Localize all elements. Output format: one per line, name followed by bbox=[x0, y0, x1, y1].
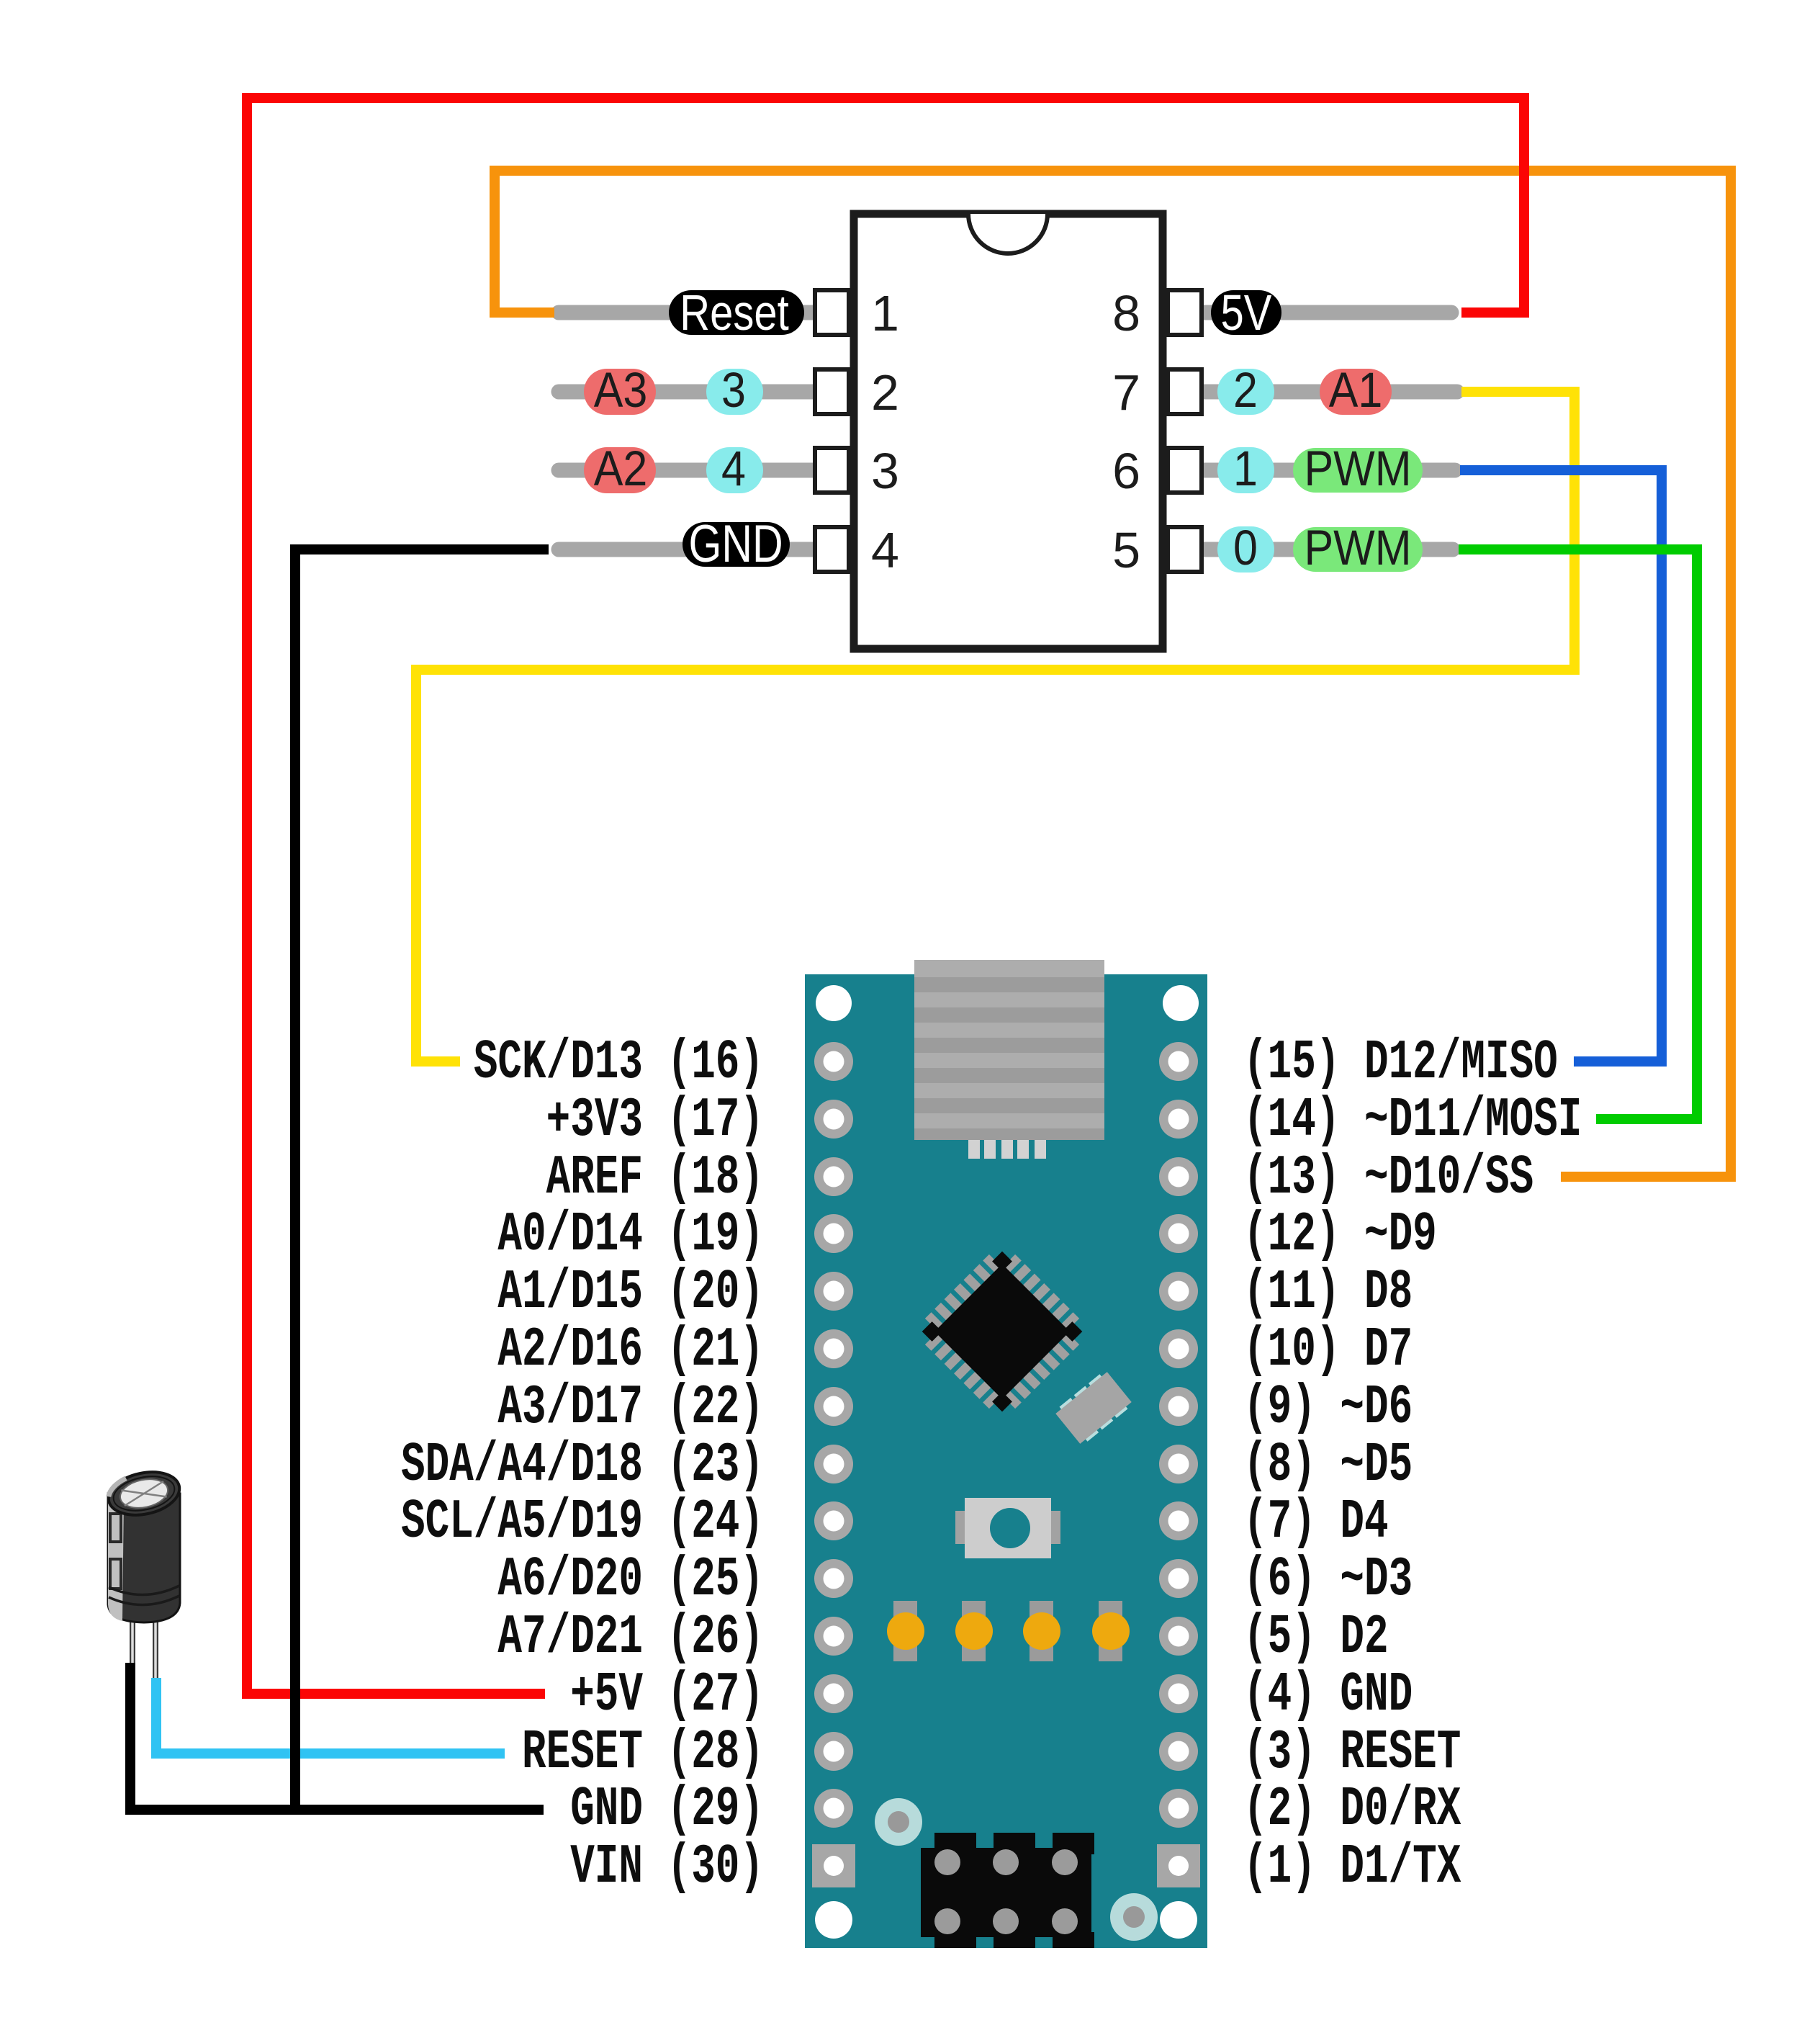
svg-text:(9) ~D6: (9) ~D6 bbox=[1243, 1377, 1413, 1440]
svg-text:(13) ~D10/SS: (13) ~D10/SS bbox=[1243, 1147, 1533, 1210]
label (4) GND bbox=[1243, 1664, 1413, 1727]
capacitor C1 crimp rings bbox=[109, 1586, 179, 1595]
label (6) ~D3 bbox=[1243, 1549, 1413, 1612]
svg-text:A2: A2 bbox=[594, 441, 648, 496]
svg-text:A2/D16 (21): A2/D16 (21) bbox=[497, 1319, 764, 1382]
label SCK/D13 (16) bbox=[474, 1032, 764, 1095]
label (9) ~D6 bbox=[1243, 1377, 1413, 1440]
pill GND bbox=[682, 522, 790, 567]
pill 2 bbox=[1217, 369, 1274, 415]
svg-text:A7/D21 (26): A7/D21 (26) bbox=[497, 1607, 764, 1669]
IC notch bbox=[968, 214, 1048, 253]
capacitor C1 label windows bbox=[110, 1514, 121, 1542]
wire lead pin4 GND bbox=[559, 542, 816, 557]
pill PWM pin5 bbox=[1293, 527, 1423, 572]
svg-text:(3) RESET: (3) RESET bbox=[1243, 1722, 1461, 1784]
svg-text:1: 1 bbox=[1233, 441, 1258, 496]
label A2/D16 (21) bbox=[497, 1319, 764, 1382]
wire lead pin7 bbox=[1201, 385, 1457, 400]
pin square 3 bbox=[815, 448, 849, 493]
wire yellow: ATtiny pin7 to SCK/D13 (16) bbox=[416, 392, 1575, 1061]
board pin labels bbox=[401, 1032, 1582, 1899]
svg-text:(7) D4: (7) D4 bbox=[1243, 1491, 1389, 1554]
USB connector bbox=[914, 960, 1104, 1140]
LEDs D1-D4 bbox=[887, 1601, 1130, 1661]
label (5) D2 bbox=[1243, 1607, 1389, 1669]
svg-text:0: 0 bbox=[1233, 520, 1258, 575]
svg-text:A6/D20 (25): A6/D20 (25) bbox=[497, 1549, 764, 1612]
label RESET (28) bbox=[522, 1722, 764, 1784]
pill A1 bbox=[1320, 369, 1392, 415]
svg-text:(6) ~D3: (6) ~D3 bbox=[1243, 1549, 1413, 1612]
pill PWM pin6 bbox=[1293, 448, 1423, 493]
wire blue: ATtiny pin6 to (15) D12/MISO bbox=[1460, 470, 1662, 1061]
label (14) ~D11/MOSI bbox=[1243, 1090, 1582, 1152]
label A0/D14 (19) bbox=[497, 1204, 764, 1267]
label GND (29) bbox=[570, 1779, 764, 1841]
vias bbox=[875, 1798, 1158, 1941]
svg-text:A3/D17 (22): A3/D17 (22) bbox=[497, 1377, 764, 1440]
capacitor C1 legs bbox=[130, 1617, 135, 1664]
svg-text:VIN (30): VIN (30) bbox=[570, 1836, 764, 1899]
label (11) D8 bbox=[1243, 1262, 1413, 1324]
svg-text:6: 6 bbox=[1112, 443, 1140, 499]
pin square 6 bbox=[1168, 448, 1202, 493]
svg-text:PWM: PWM bbox=[1304, 441, 1411, 496]
label (3) RESET bbox=[1243, 1722, 1461, 1784]
svg-text:5: 5 bbox=[1112, 522, 1140, 578]
svg-text:(10) D7: (10) D7 bbox=[1243, 1319, 1413, 1382]
svg-text:RESET (28): RESET (28) bbox=[522, 1722, 764, 1784]
label (12) ~D9 bbox=[1243, 1204, 1437, 1267]
label A1/D15 (20) bbox=[497, 1262, 764, 1324]
CAPACITOR C1 bbox=[104, 1466, 184, 1680]
svg-text:(2) D0/RX: (2) D0/RX bbox=[1243, 1779, 1461, 1841]
svg-text:5V: 5V bbox=[1221, 284, 1272, 341]
svg-text:(15) D12/MISO: (15) D12/MISO bbox=[1243, 1032, 1558, 1095]
wire lead pin3 bbox=[559, 463, 816, 478]
pin square 4 bbox=[815, 527, 849, 572]
svg-text:(1) D1/TX: (1) D1/TX bbox=[1243, 1836, 1461, 1899]
board pin holes bbox=[812, 1042, 1200, 1887]
wire black: ATtiny pin4 GND down bbox=[295, 549, 549, 1810]
svg-text:(5) D2: (5) D2 bbox=[1243, 1607, 1389, 1669]
svg-text:GND (29): GND (29) bbox=[570, 1779, 764, 1841]
wire orange: ATtiny pin1 Reset to (13) ~D10/SS bbox=[495, 171, 1731, 1177]
svg-text:2: 2 bbox=[1233, 362, 1258, 418]
pin square 2 bbox=[815, 369, 849, 414]
svg-text:Reset: Reset bbox=[680, 284, 789, 341]
ICSP header J1 bbox=[921, 1833, 1094, 1948]
MCU chip U3 (ATmega, rotated 45deg) bbox=[912, 1242, 1092, 1422]
pill Reset bbox=[669, 290, 804, 335]
svg-text:(11) D8: (11) D8 bbox=[1243, 1262, 1413, 1324]
svg-text:GND: GND bbox=[688, 515, 783, 573]
svg-text:A1: A1 bbox=[1329, 362, 1383, 418]
label (10) D7 bbox=[1243, 1319, 1413, 1382]
svg-text:SCL/A5/D19 (24): SCL/A5/D19 (24) bbox=[401, 1491, 764, 1554]
svg-text:AREF (18): AREF (18) bbox=[546, 1147, 764, 1210]
svg-text:A0/D14 (19): A0/D14 (19) bbox=[497, 1204, 764, 1267]
svg-text:8: 8 bbox=[1112, 285, 1140, 341]
wire lead pin1 Reset bbox=[559, 305, 816, 320]
label VIN (30) bbox=[570, 1836, 764, 1899]
PILL LABELS bbox=[584, 284, 1423, 575]
svg-text:A3: A3 bbox=[594, 362, 648, 418]
label SDA/A4/D18 (23) bbox=[401, 1434, 764, 1497]
wire lead pin5 bbox=[1201, 542, 1453, 557]
mounting holes corners bbox=[816, 985, 852, 1021]
svg-text:2: 2 bbox=[871, 364, 899, 421]
svg-text:7: 7 bbox=[1112, 364, 1140, 421]
pin square 8 bbox=[1168, 290, 1202, 335]
svg-text:SCK/D13 (16): SCK/D13 (16) bbox=[474, 1032, 764, 1095]
wire lead pin2 bbox=[559, 385, 816, 400]
IC body outline bbox=[854, 214, 1163, 649]
label (13) ~D10/SS bbox=[1243, 1147, 1533, 1210]
wire red: ATtiny pin8 5V to +5V (27) bbox=[247, 98, 1524, 1694]
pill 4 bbox=[706, 447, 763, 493]
svg-text:4: 4 bbox=[721, 441, 746, 496]
label (7) D4 bbox=[1243, 1491, 1389, 1554]
label (2) D0/RX bbox=[1243, 1779, 1461, 1841]
pill 1 bbox=[1217, 447, 1274, 493]
svg-text:(4) GND: (4) GND bbox=[1243, 1664, 1413, 1727]
capacitor C1 top face bbox=[104, 1466, 184, 1522]
label +5V (27) bbox=[570, 1664, 764, 1727]
pin square 5 bbox=[1168, 527, 1202, 572]
svg-text:(14) ~D11/MOSI: (14) ~D11/MOSI bbox=[1243, 1090, 1582, 1152]
label A6/D20 (25) bbox=[497, 1549, 764, 1612]
svg-text:PWM: PWM bbox=[1304, 520, 1411, 575]
pill 3 bbox=[706, 369, 763, 415]
svg-text:+3V3 (17): +3V3 (17) bbox=[546, 1090, 764, 1152]
USB pins bbox=[968, 1140, 1046, 1159]
svg-text:4: 4 bbox=[871, 522, 899, 578]
svg-text:1: 1 bbox=[871, 285, 899, 341]
Arduino Nano board U2 bbox=[805, 960, 1207, 1948]
pill 5V bbox=[1211, 290, 1281, 335]
wire green: ATtiny pin5 to (14) ~D11/MOSI bbox=[1459, 549, 1697, 1119]
wire black: capacitor leg to GND (29) bbox=[130, 1663, 544, 1810]
reset button SW1 bbox=[955, 1498, 1060, 1558]
pill 0 bbox=[1217, 526, 1274, 573]
label SCL/A5/D19 (24) bbox=[401, 1491, 764, 1554]
svg-text:(12) ~D9: (12) ~D9 bbox=[1243, 1204, 1437, 1267]
svg-text:3: 3 bbox=[871, 443, 899, 499]
resonator Y1 bbox=[1054, 1370, 1134, 1446]
pin square 1 bbox=[815, 290, 849, 335]
WIRES-GRAY bbox=[559, 313, 1457, 549]
svg-text:(8) ~D5: (8) ~D5 bbox=[1243, 1434, 1413, 1497]
IC U1 ATtiny85 (8-pin DIP) bbox=[815, 214, 1202, 649]
label +3V3 (17) bbox=[546, 1090, 764, 1152]
svg-text:+5V (27): +5V (27) bbox=[570, 1664, 764, 1727]
label (1) D1/TX bbox=[1243, 1836, 1461, 1899]
label A3/D17 (22) bbox=[497, 1377, 764, 1440]
label (8) ~D5 bbox=[1243, 1434, 1413, 1497]
label (15) D12/MISO bbox=[1243, 1032, 1558, 1095]
wire lightblue: capacitor to RESET (28) bbox=[156, 1678, 505, 1754]
PCB body bbox=[805, 974, 1207, 1948]
svg-text:SDA/A4/D18 (23): SDA/A4/D18 (23) bbox=[401, 1434, 764, 1497]
pill A2 bbox=[584, 447, 656, 493]
label AREF (18) bbox=[546, 1147, 764, 1210]
svg-text:3: 3 bbox=[721, 362, 746, 418]
wire lead pin6 bbox=[1201, 463, 1455, 478]
label A7/D21 (26) bbox=[497, 1607, 764, 1669]
wire lead pin8 5V bbox=[1201, 305, 1451, 320]
pin square 7 bbox=[1168, 369, 1202, 414]
capacitor C1 body bbox=[108, 1494, 180, 1622]
pill A3 bbox=[584, 369, 656, 415]
svg-text:A1/D15 (20): A1/D15 (20) bbox=[497, 1262, 764, 1324]
